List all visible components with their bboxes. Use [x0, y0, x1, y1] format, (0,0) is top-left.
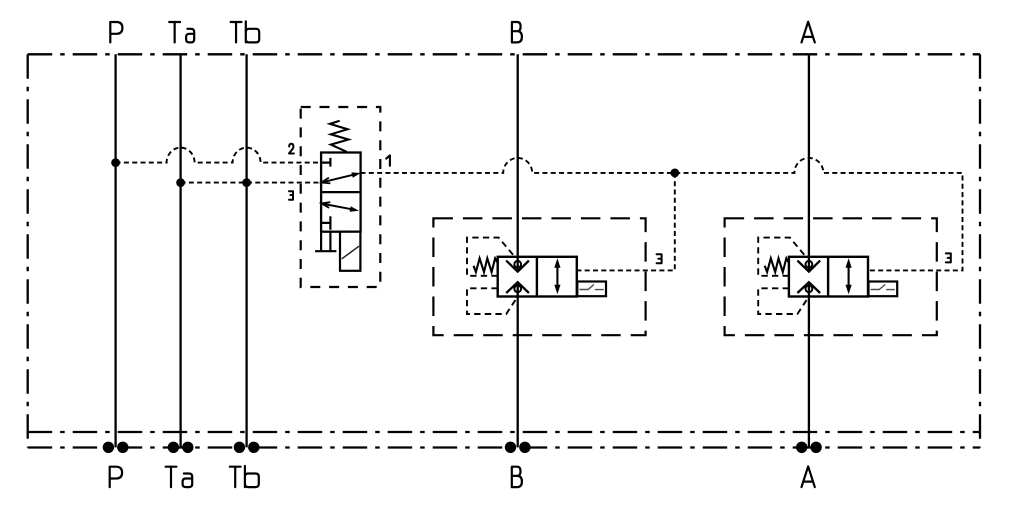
- valve CVA pilot chamber box lower: [758, 288, 808, 314]
- port B bottom opening dots: [505, 442, 516, 453]
- manifold boundary bottom outer edge: [28, 446, 980, 448]
- valve CVA body: [789, 257, 868, 297]
- valve CVA spring: [765, 258, 789, 272]
- pilot valve PV flow path position b: [322, 204, 352, 210]
- valve CVB pilot chamber box upper: [467, 238, 513, 276]
- pin label 1 pilot valve: [386, 155, 390, 165]
- port label Ta bottom: [166, 467, 193, 487]
- valve CVB adjustment box: [577, 282, 606, 297]
- port line A upper segment: [808, 54, 810, 271]
- port label Tb bottom: [230, 466, 259, 487]
- port label Tb top: [231, 21, 260, 42]
- manifold boundary left edge: [27, 54, 29, 447]
- port label P bottom: [110, 467, 122, 487]
- port line A lower segment: [808, 282, 810, 447]
- pilot valve PV drain: [315, 232, 336, 252]
- valve CVB check poppet upper: [514, 261, 521, 268]
- pilot valve PV solenoid: [340, 232, 360, 271]
- pilot valve PV body: [321, 153, 361, 232]
- valve CVA adjustment box: [869, 282, 898, 297]
- manifold boundary right edge: [979, 54, 981, 447]
- port line Ta: [179, 54, 181, 447]
- port line B upper segment: [517, 54, 519, 271]
- junction dot node Ta / pilot: [176, 178, 185, 187]
- port label B top: [512, 22, 522, 42]
- manifold boundary top edge: [28, 53, 980, 55]
- pin label 3 pilot valve: [289, 191, 293, 200]
- port P bottom opening dots: [103, 442, 114, 453]
- valve CVB spring: [474, 258, 498, 272]
- port line P: [114, 54, 116, 447]
- valve CVB body: [498, 257, 577, 297]
- pin label 3 valve CVA: [946, 253, 951, 262]
- port label A top: [802, 22, 815, 43]
- valve CVA check poppet upper: [806, 261, 813, 268]
- valve CVA adjustment symbol: [871, 285, 895, 290]
- port label B bottom: [512, 467, 522, 487]
- junction dot node P / pilot: [111, 158, 120, 167]
- port Ta bottom opening dots: [168, 442, 179, 453]
- pilot valve PV blocked port 2 symbol: [321, 158, 330, 167]
- pilot line from pilot valve port 1 to valve CVA port 3: [361, 158, 963, 271]
- pilot line from Ta,Tb to pilot valve port 3: [181, 182, 322, 184]
- pin label 3 valve CVB: [657, 254, 662, 263]
- pilot line from P to pilot valve port 2: [116, 148, 322, 163]
- valve CVA flow arrow: [848, 264, 850, 289]
- junction dot pilot branch node: [670, 169, 679, 178]
- valve CVA envelope: [725, 218, 937, 335]
- pin label 2 pilot valve: [289, 144, 294, 154]
- pilot valve PV blocked port symbol position b: [321, 216, 330, 230]
- port line B lower segment: [517, 282, 519, 447]
- port label P top: [110, 22, 122, 42]
- valve CVB envelope: [433, 218, 645, 335]
- port Tb bottom opening dots: [234, 442, 245, 453]
- pilot valve PV envelope: [301, 107, 381, 287]
- valve CVB adjustment symbol: [579, 285, 603, 290]
- port label Ta top: [169, 22, 194, 42]
- valve CVB pilot chamber box lower: [467, 288, 517, 314]
- valve CVA pilot chamber box upper: [758, 238, 804, 276]
- junction dot node Tb / pilot: [242, 178, 251, 187]
- valve CVA check poppet lower: [806, 285, 813, 292]
- valve CVB flow arrow: [556, 264, 558, 289]
- port label A bottom: [802, 466, 815, 487]
- port A bottom opening dots: [796, 442, 807, 453]
- pilot valve PV spring: [330, 121, 349, 152]
- manifold boundary bottom inner edge: [28, 431, 980, 433]
- valve CVB check poppet lower: [514, 285, 521, 292]
- pilot valve PV flow path position a: [322, 175, 353, 183]
- port line Tb: [245, 54, 247, 447]
- pilot branch to valve CVB port 3: [577, 173, 675, 271]
